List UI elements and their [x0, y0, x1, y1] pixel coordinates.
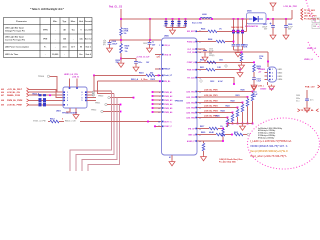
svg-text:R625: R625	[216, 116, 220, 118]
capacitor C613	[59, 121, 64, 123]
wire bus row E	[103, 111, 120, 113]
svg-text:LCM_BL_PW2: LCM_BL_PW2	[204, 101, 218, 103]
svg-text:GND2: GND2	[278, 72, 283, 74]
node U600 pin PWM_A3	[162, 99, 164, 101]
node U600 pin LED_FB1	[195, 91, 197, 93]
wire U600 left stub	[153, 103, 162, 105]
svg-text:4: 4	[159, 74, 160, 77]
svg-text:GND1: GND1	[278, 69, 283, 71]
svg-text:PGND_A: PGND_A	[187, 40, 196, 43]
wire U600 left stub	[153, 91, 162, 93]
svg-text:TP_PWR_BL: TP_PWR_BL	[301, 110, 315, 112]
svg-text:VDD_IN: VDD_IN	[164, 54, 172, 56]
node junction	[120, 104, 122, 106]
wire IFB row	[197, 128, 209, 130]
inductor L600	[200, 18, 212, 20]
svg-text:1%: 1%	[219, 29, 222, 31]
ground R618	[118, 62, 124, 68]
svg-text:R610: R610	[200, 60, 204, 62]
svg-text:D600: D600	[247, 11, 252, 13]
node U600 pin FSW_RT	[195, 69, 197, 71]
svg-text:MBRS340T3G: MBRS340T3G	[245, 25, 259, 28]
node junction	[233, 83, 235, 85]
ground COMP tap	[241, 62, 243, 63]
wire SW to trunk	[246, 19, 248, 31]
svg-text:LCM_IO: LCM_IO	[72, 77, 80, 79]
svg-text:Note 1,2: Note 1,2	[85, 38, 92, 41]
svg-text:Unit: Unit	[79, 20, 84, 23]
wire cap row bus	[166, 27, 186, 29]
svg-text:LED Light Bar Input: LED Light Bar Input	[5, 27, 24, 30]
svg-text:4: 4	[67, 99, 68, 102]
svg-text:609: 609	[1, 105, 4, 107]
svg-text:1%: 1%	[125, 51, 128, 53]
capacitor C603	[178, 18, 180, 20]
svg-text:LED Light Bar Input: LED Light Bar Input	[5, 36, 24, 39]
svg-text:VPIN: VPIN	[43, 30, 48, 32]
diamond marker	[200, 80, 203, 83]
svg-text:R621: R621	[236, 95, 240, 97]
wire CN600 feed	[267, 52, 269, 67]
node U600 pin CLP_OV	[195, 48, 197, 50]
node U600 pin PWM_A4	[162, 103, 164, 105]
node U600 pin Fault_LT	[162, 75, 164, 77]
wire U601 right pin stub	[87, 97, 96, 99]
capacitor C620	[306, 90, 308, 99]
svg-text:TPS6199: TPS6199	[175, 101, 184, 103]
svg-text:VGG1_x2_PW: VGG1_x2_PW	[33, 120, 46, 122]
svg-text:5: 5	[82, 100, 83, 102]
node U600 pin LED_FB5	[195, 112, 197, 114]
wire FSW row	[197, 69, 206, 71]
wire R619 to IC	[155, 74, 162, 76]
svg-text:OVP_SN: OVP_SN	[187, 52, 195, 54]
svg-text:FAULT: FAULT	[164, 68, 171, 71]
capacitor C606	[242, 18, 244, 20]
capacitor C612b	[253, 72, 255, 78]
svg-text:R619: R619	[139, 73, 144, 75]
svg-text:VDIM=(R6215 90L75)*107. b: VDIM=(R6215 90L75)*107. b	[250, 144, 288, 148]
svg-text:10u: 10u	[259, 58, 262, 60]
power flag top	[270, 3, 276, 11]
wire VIN drop	[149, 19, 151, 40]
node U600 pin DUTY_C	[162, 121, 164, 123]
capacitor C601	[165, 18, 167, 20]
svg-text:1: 1	[272, 69, 273, 71]
node junction	[252, 91, 254, 93]
svg-text:ISET_A: ISET_A	[188, 133, 195, 136]
svg-text:608: 608	[1, 100, 4, 102]
svg-text:R624: R624	[221, 110, 225, 113]
svg-text:Parameter: Parameter	[16, 20, 27, 23]
node U600 pin LED_FB2	[195, 96, 197, 98]
wire SS row	[98, 80, 161, 82]
node junction	[158, 75, 160, 77]
svg-text:1: 1	[159, 45, 160, 47]
resistor R623	[237, 108, 239, 110]
svg-text:R611: R611	[200, 67, 204, 69]
wire L-bundle 3	[82, 98, 117, 171]
node U600 pin PGND_A	[195, 41, 197, 43]
svg-text:560: 560	[150, 73, 153, 75]
wire CN600 stub3	[265, 75, 268, 77]
svg-text:PWM_A1: PWM_A1	[164, 91, 172, 94]
wire to CN600	[267, 52, 269, 61]
resistor R611	[206, 68, 215, 71]
svg-text:Fault_LT: Fault_LT	[164, 74, 173, 77]
node U600 pin AGND_P	[195, 140, 197, 142]
wire U600 left stub	[153, 95, 162, 97]
wire FB drop	[252, 101, 254, 124]
svg-text:LED_FB3: LED_FB3	[186, 102, 194, 104]
wire L-bundle 4	[88, 105, 119, 172]
wire FAULT stub	[155, 68, 162, 70]
svg-text:LED Power Consumption: LED Power Consumption	[5, 46, 30, 49]
svg-text:(LED): (LED)	[269, 88, 274, 90]
svg-text:GND4: GND4	[278, 78, 283, 81]
wire FB bus	[228, 123, 253, 125]
node junction	[120, 58, 122, 60]
ground R609	[251, 84, 257, 90]
node junction	[239, 69, 241, 71]
resistor R620	[252, 92, 254, 94]
svg-text:RT_CLK: RT_CLK	[187, 77, 195, 79]
node junction	[133, 97, 135, 99]
spec table	[4, 18, 93, 58]
wire LCM_BL_PW0 row	[197, 91, 253, 93]
ground caps 604-606	[237, 50, 239, 51]
resistor R621	[234, 133, 243, 136]
wire R618 bottom	[120, 53, 122, 62]
wire CN600 bottom	[267, 82, 269, 85]
svg-text:CLP_OV: CLP_OV	[187, 49, 195, 51]
capacitor C602	[172, 18, 174, 20]
node junction	[267, 18, 269, 20]
node junction	[231, 134, 233, 136]
svg-text:3: 3	[159, 69, 160, 71]
wire L-bundle 2	[76, 94, 114, 172]
svg-text:30,000: 30,000	[52, 54, 59, 56]
node U600 pin SW_BST	[195, 31, 197, 33]
svg-text:R612_A: R612_A	[131, 78, 139, 81]
capacitor C605	[237, 18, 239, 20]
svg-text:LED_BL_PW1: LED_BL_PW1	[304, 16, 317, 18]
wire AGND row	[197, 140, 223, 142]
node junction	[247, 96, 249, 98]
svg-text:607: 607	[1, 95, 4, 97]
svg-text:PWM_A3: PWM_A3	[164, 99, 172, 102]
resistor R621	[247, 97, 249, 99]
node LED_BL_PW label	[301, 14, 303, 17]
svg-text:5: 5	[67, 105, 68, 107]
wire U600 left stub	[153, 107, 162, 109]
svg-text:Note 3: Note 3	[86, 46, 91, 49]
wire row 58.5 to C617	[121, 58, 136, 60]
svg-text:R605: R605	[201, 29, 205, 31]
node U600 pin EN_BL	[162, 80, 164, 82]
svg-text:R614_x_CN: R614_x_CN	[65, 119, 76, 122]
node U600 pin PWM_A1	[162, 91, 164, 93]
svg-text:TP604: TP604	[38, 75, 45, 78]
svg-text:W: W	[80, 47, 82, 49]
resistor R622	[203, 141, 205, 143]
wire bus drop A	[94, 75, 112, 91]
wire FB drop	[227, 124, 229, 128]
svg-text:4.7n: 4.7n	[310, 98, 313, 101]
svg-text:GND3: GND3	[278, 76, 283, 78]
svg-text:R623: R623	[226, 106, 230, 108]
node U600 pin PWM_A2	[162, 95, 164, 97]
svg-text:LED_FB2: LED_FB2	[186, 97, 194, 99]
diode D600	[247, 13, 267, 24]
svg-text:0: 0	[62, 119, 63, 121]
node junction	[159, 80, 161, 82]
resistor R617	[209, 127, 218, 130]
resistor R619	[146, 74, 155, 77]
svg-text:PWM_BL_PWM: PWM_BL_PWM	[7, 100, 23, 102]
node U600 pin FAULT	[162, 68, 164, 70]
node junction	[237, 107, 239, 109]
wire LCM_BL_PW3 row	[197, 107, 238, 109]
ground cap row	[172, 28, 174, 29]
capacitor C614	[109, 40, 111, 42]
capacitor C604	[185, 18, 187, 20]
capacitor C607	[272, 18, 274, 20]
svg-text:LCM_BL_ON: LCM_BL_ON	[7, 92, 20, 94]
svg-text:Pad_GL_G3: Pad_GL_G3	[109, 7, 123, 9]
svg-text:VBR8_L2: VBR8_L2	[307, 48, 317, 50]
svg-text:+12V_BL_FELT: +12V_BL_FELT	[7, 89, 23, 91]
node junction	[149, 39, 151, 41]
svg-text:LED_FB6: LED_FB6	[186, 117, 194, 119]
svg-text:TP612: TP612	[91, 110, 96, 112]
node junction	[120, 18, 122, 20]
node junction	[267, 61, 269, 63]
svg-text:Note 4: Note 4	[86, 53, 91, 56]
svg-text:HDR1_LK_PIN: HDR1_LK_PIN	[64, 74, 78, 76]
wire bus row C	[110, 97, 133, 99]
ground FB bus	[242, 124, 244, 125]
svg-text:FSW_RT: FSW_RT	[187, 70, 196, 72]
node junction	[211, 18, 213, 20]
svg-text:LCM_BL_PW1: LCM_BL_PW1	[284, 6, 298, 8]
node junction	[49, 94, 51, 96]
wire bus drop B	[98, 81, 115, 93]
ground U601	[73, 113, 79, 119]
wire U601 bottom pin 2	[75, 108, 77, 113]
wire LCM_BL_PW1 row	[197, 96, 248, 98]
wire R616 to row40	[120, 36, 122, 44]
wire PWM_BL_PWM	[29, 99, 63, 101]
ground C617	[133, 66, 139, 72]
wire RT elbow	[230, 78, 234, 85]
svg-text:LCM_BL_PW4: LCM_BL_PW4	[204, 110, 218, 113]
svg-text:LCM_x: LCM_x	[258, 86, 264, 88]
svg-text:R620: R620	[201, 132, 205, 134]
svg-text:VBR0_L1: VBR0_L1	[304, 59, 314, 61]
svg-text:PWM_A6: PWM_A6	[164, 111, 172, 114]
svg-text:TP611: TP611	[95, 103, 100, 105]
svg-text:P₁: P₁	[44, 47, 46, 49]
resistor R618	[120, 44, 123, 54]
svg-text:1u: 1u	[152, 42, 154, 44]
node junction	[241, 51, 243, 53]
svg-text:12: 12	[158, 121, 160, 123]
test point TP605	[225, 65, 227, 67]
svg-text:LCM_BL_PW0: LCM_BL_PW0	[204, 90, 218, 92]
ground C620	[304, 107, 310, 113]
resistor R608	[216, 40, 225, 43]
wire trunk after diode	[266, 18, 292, 20]
node U600 pin VDD_IN	[162, 54, 164, 56]
svg-text:R612: R612	[151, 79, 156, 81]
wire LCM_BL_PW5 row	[197, 117, 228, 119]
node junction	[120, 111, 122, 113]
svg-text:IPIN: IPIN	[43, 39, 47, 41]
power flag FB	[252, 85, 257, 91]
wire SW row	[197, 30, 208, 32]
ground U600 pad	[169, 160, 175, 166]
svg-text:1%: 1%	[124, 33, 127, 35]
svg-text:220n: 220n	[296, 98, 300, 100]
svg-text:I_LED=(+1.228 90L73)*5862mA: I_LED=(+1.228 90L73)*5862mA	[250, 139, 292, 143]
svg-text:2: 2	[67, 95, 68, 97]
svg-text:LED_FB4: LED_FB4	[186, 106, 195, 109]
wire LCM_BL_ON	[29, 92, 63, 95]
svg-text:PWM_A4: PWM_A4	[164, 103, 173, 106]
svg-text:R613: R613	[50, 119, 55, 121]
wire U601 right pin stub	[87, 99, 96, 101]
svg-text:LCM_BL_PW3: LCM_BL_PW3	[204, 106, 218, 108]
no-connect	[92, 91, 95, 94]
svg-text:R620: R620	[241, 90, 245, 92]
node junction	[222, 140, 224, 142]
test point TP606	[247, 133, 249, 135]
wire LCM_BL_PW4 row	[197, 112, 233, 114]
node junction	[233, 41, 235, 43]
resistor R606 zig	[240, 53, 243, 61]
node junction	[253, 61, 255, 63]
node junction	[93, 75, 95, 77]
node U600 pin IFB_CP	[195, 128, 197, 130]
wire U601 top pin 2	[76, 79, 78, 88]
wire U600 pad stub	[171, 155, 173, 160]
wire COMP row	[197, 61, 254, 63]
node junction	[222, 128, 224, 130]
svg-text:Duty 100%: Duty 100%	[84, 29, 93, 32]
svg-text:EN_BL: EN_BL	[164, 81, 171, 83]
wire U601 bottom pin	[66, 108, 70, 112]
svg-text:LED Life Time: LED Life Time	[5, 54, 19, 56]
svg-text:C620: C620	[296, 95, 300, 97]
wire up to label	[291, 10, 293, 19]
svg-text:R608: R608	[208, 39, 212, 41]
node U600 pin ISET_A	[195, 134, 197, 136]
svg-text:PGB_1.5V: PGB_1.5V	[305, 86, 315, 88]
node U600 pin LED_FB4	[195, 107, 197, 109]
node TP_PWR_BL label	[298, 109, 300, 112]
svg-text:+C700_13.1uF: +C700_13.1uF	[136, 57, 150, 59]
node U600 pin LED_FB3	[195, 102, 197, 104]
wire PGND row	[197, 41, 216, 43]
wire CN600 stub4	[265, 79, 268, 81]
svg-text:1.6M(1.R Ohm/b.Ohm) Ohm: 1.6M(1.R Ohm/b.Ohm) Ohm	[219, 159, 243, 161]
node junction	[227, 117, 229, 119]
wire cap bus 2	[234, 49, 243, 51]
node PX_BL_PWM label	[301, 17, 303, 20]
wire L-bundle 1	[70, 91, 112, 171]
capacitor C609	[285, 18, 287, 20]
svg-text:IFB_CP: IFB_CP	[188, 128, 195, 130]
svg-text:LCM_BL_PW1: LCM_BL_PW1	[204, 95, 218, 97]
wire row y40	[110, 39, 162, 41]
svg-text:3: 3	[272, 76, 273, 78]
node junction	[120, 39, 122, 41]
svg-text:TP_BL_V+: TP_BL_V+	[304, 13, 314, 15]
resistor R616	[120, 28, 123, 36]
resistor R610	[196, 61, 198, 63]
ground C615	[147, 47, 153, 53]
svg-text:LED_FB5: LED_FB5	[186, 112, 194, 114]
wire LCM_BL_PW2 row	[197, 102, 243, 104]
svg-text:PWM_A5: PWM_A5	[164, 107, 172, 110]
IC U600 TPS61199 body	[162, 38, 198, 155]
svg-text:COMP_A: COMP_A	[187, 61, 196, 64]
capacitor C604	[233, 18, 235, 20]
svg-text:1.0uF: 1.0uF	[257, 80, 261, 82]
ellipse mid-right arc	[308, 42, 320, 58]
node U600 pin PWM_A5	[162, 107, 164, 109]
node U600 pin VIN_A	[162, 44, 164, 46]
wire FB drop	[232, 122, 234, 124]
wire VDD stub	[155, 54, 162, 56]
connector block gray 2	[312, 24, 320, 29]
svg-text:Min.: Min.	[53, 21, 58, 23]
wire +12V_BL_FELT	[29, 89, 63, 92]
node junction	[242, 102, 244, 104]
svg-text:41: 41	[169, 156, 171, 159]
resistor R609	[253, 64, 256, 72]
svg-text:Typ.: Typ.	[62, 21, 67, 23]
connector block gray 1	[312, 18, 320, 23]
ground C614	[107, 47, 113, 53]
wire CLP stub	[197, 48, 205, 50]
svg-text:TP610: TP610	[98, 96, 103, 98]
svg-text:LCM_BL_PWM: LCM_BL_PWM	[7, 105, 22, 107]
wire FB drop	[242, 112, 244, 124]
wire trunk top horizontal	[121, 18, 250, 20]
svg-text:Sturt_LY06: Sturt_LY06	[192, 21, 202, 24]
wire bus row D	[107, 104, 120, 106]
node U600 pin PWM_A6	[162, 111, 164, 113]
svg-text:C612: C612	[210, 81, 214, 83]
wire Pad_GL_G3 vertical	[120, 9, 122, 28]
svg-text:Current Per Input Pin: Current Per Input Pin	[5, 39, 26, 42]
svg-text:60.4K: 60.4K	[209, 131, 214, 134]
resistor R622	[242, 103, 244, 105]
svg-text:DUTY_C: DUTY_C	[164, 121, 172, 123]
op-amp U601 TPS54331	[63, 87, 87, 108]
wire U600 left stub	[153, 111, 162, 113]
svg-text:PWM_A2: PWM_A2	[164, 95, 172, 98]
wire RT row	[197, 77, 230, 79]
wire U600 left stub	[153, 99, 162, 101]
svg-text:R621: R621	[234, 132, 238, 134]
svg-text:R617: R617	[200, 126, 204, 128]
svg-text:Remark: Remark	[85, 21, 93, 23]
wire U601 right pin stub	[87, 94, 92, 96]
resistor R625	[227, 118, 229, 120]
